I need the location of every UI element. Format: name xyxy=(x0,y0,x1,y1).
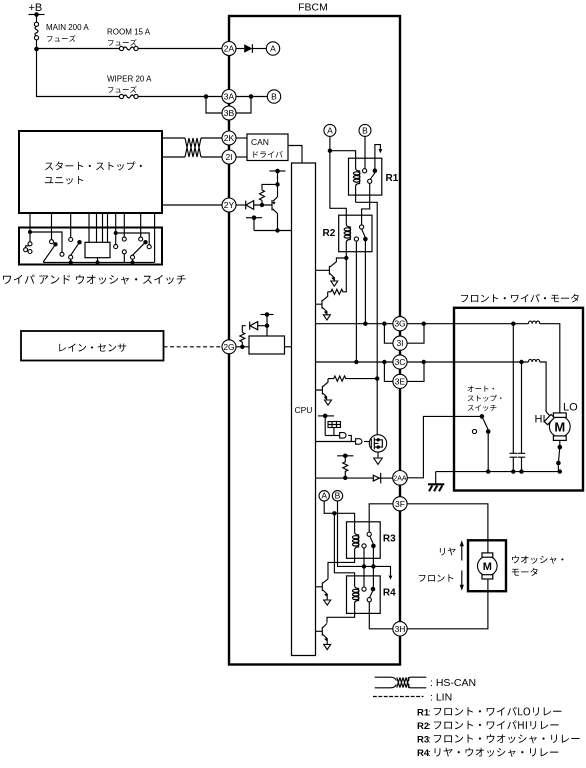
inductor L2 xyxy=(528,359,539,362)
HS-CAN twisted pair xyxy=(185,138,201,157)
relay R1 box xyxy=(349,158,382,195)
relay R2 contact xyxy=(354,225,367,362)
node B out xyxy=(267,90,280,103)
svg-text:ROOM 15 A: ROOM 15 A xyxy=(107,28,151,37)
wire rain sensor to 2G (LIN dashed) xyxy=(164,346,223,348)
wire CAN driver to CPU xyxy=(288,146,302,164)
svg-text:R3: R3 xyxy=(383,534,396,545)
wire diode to 2AA xyxy=(379,477,392,479)
wire diode to node xyxy=(254,204,272,206)
svg-text:A: A xyxy=(327,125,333,135)
wire A down xyxy=(330,136,346,215)
junction dot cap2 xyxy=(519,360,523,364)
switch SW3 contacts xyxy=(114,231,152,249)
junction dot 2G diode xyxy=(265,324,269,328)
wire coil node to Q2 xyxy=(330,258,346,267)
wire 3C to motor xyxy=(407,361,528,363)
ground G1 xyxy=(331,281,338,286)
junction dot 2AA xyxy=(343,476,347,480)
auto stop switch xyxy=(472,414,490,472)
junction dot 3I-3G xyxy=(382,322,386,326)
wire fuse to junction xyxy=(36,40,38,49)
svg-text:R4: R4 xyxy=(383,588,396,599)
connector 2K xyxy=(222,131,236,145)
wire block to CPU xyxy=(285,346,292,348)
transistor Q4 xyxy=(316,379,329,400)
chassis ground xyxy=(428,472,444,492)
wire to ROOM fuse xyxy=(37,48,120,50)
junction dot 2Y node xyxy=(260,203,264,207)
svg-text:CAN: CAN xyxy=(251,137,269,147)
svg-text:WIPER 20 A: WIPER 20 A xyxy=(107,75,152,84)
svg-text:3C: 3C xyxy=(395,357,406,367)
wire L2 to HI brush xyxy=(540,362,550,416)
relay R1 coil xyxy=(353,158,360,202)
legend LIN dashed xyxy=(373,696,424,698)
capacitor C2 xyxy=(518,362,526,472)
svg-text:HI: HI xyxy=(535,414,546,426)
fuse MAIN 200A xyxy=(34,22,38,40)
junction dot A xyxy=(328,149,332,153)
relay R1 contact xyxy=(362,168,378,225)
legend R2 text xyxy=(434,720,559,729)
arrow B2 out xyxy=(389,576,393,580)
junction dot B2-R3com xyxy=(371,564,375,568)
svg-text:R1: R1 xyxy=(386,173,399,184)
transistor Q1 (2Y input) xyxy=(272,184,278,230)
motor box ground rail xyxy=(436,471,560,473)
wire WIPER fuse to 3A xyxy=(138,96,222,98)
junction dot 3C-3E right xyxy=(422,360,426,364)
node +B xyxy=(29,2,45,17)
connector 3I xyxy=(393,336,407,350)
svg-text:CPU: CPU xyxy=(295,405,313,415)
wire washer motor to 3H xyxy=(407,591,488,629)
label rear xyxy=(440,548,456,556)
relay R3 contact xyxy=(362,532,376,589)
svg-text:3E: 3E xyxy=(395,376,406,386)
wire +B down to WIPER branch xyxy=(37,49,120,97)
svg-text:2K: 2K xyxy=(224,133,235,143)
label WIPER fuse xyxy=(108,86,137,93)
label front dir xyxy=(419,574,453,582)
rail tap 2G xyxy=(261,312,274,336)
wire B to R1 contact xyxy=(364,136,366,168)
motor M1 return xyxy=(556,440,562,471)
FBCM module box xyxy=(229,2,400,665)
junction dot Q1-CPU xyxy=(275,228,279,232)
rail tap bottom 2Y xyxy=(246,215,262,230)
svg-text:3I: 3I xyxy=(396,338,403,348)
ground G4 xyxy=(374,452,383,464)
wire 2G to block xyxy=(236,346,249,348)
svg-text::: : xyxy=(428,735,431,746)
connector 2I xyxy=(222,150,236,164)
connector 3G xyxy=(393,317,407,331)
svg-text:A: A xyxy=(270,44,276,54)
junction dot 3E-3C xyxy=(382,360,386,364)
svg-text:: LIN: : LIN xyxy=(430,692,452,704)
svg-text:B: B xyxy=(362,125,368,135)
wire CPU to 3C xyxy=(316,361,394,363)
legend HS-CAN symbol xyxy=(375,677,427,688)
label CAN driver xyxy=(253,151,282,158)
junction dot R2nc-3C xyxy=(354,360,358,364)
switch SW1 wiper xyxy=(24,230,64,262)
connector 3A xyxy=(222,90,236,104)
svg-text:: HS-CAN: : HS-CAN xyxy=(430,677,476,689)
node A out xyxy=(266,42,279,55)
svg-text::: : xyxy=(428,721,431,732)
wire B2 down xyxy=(338,501,391,576)
relay R3 box xyxy=(347,522,381,559)
connector 2AA xyxy=(393,471,408,486)
label wiper and washer switch xyxy=(3,275,186,285)
wire 3E hook right xyxy=(407,362,424,381)
motor M1 xyxy=(544,413,570,441)
wire A to R1 coil xyxy=(330,151,356,159)
wire 3B loop left xyxy=(206,97,222,114)
svg-text:3A: 3A xyxy=(224,92,235,102)
svg-text:B: B xyxy=(271,92,277,102)
wire CPU to 3G xyxy=(316,323,394,325)
node B in xyxy=(359,124,371,136)
resistor R-2AA xyxy=(343,456,348,478)
resistor R-Q4 xyxy=(328,376,377,381)
svg-text:2Y: 2Y xyxy=(224,200,235,210)
relay R2 coil xyxy=(344,215,351,258)
wire 2AA to auto-stop switch xyxy=(407,416,482,477)
svg-text:B: B xyxy=(335,491,341,501)
svg-text::: : xyxy=(428,748,431,759)
connector 3F xyxy=(393,497,407,511)
wire HS-CAN low to 2I xyxy=(162,156,222,158)
svg-text:3B: 3B xyxy=(224,108,235,118)
label auto stop switch line2 xyxy=(468,395,502,402)
junction dot emitter xyxy=(275,182,279,186)
svg-text:3G: 3G xyxy=(394,319,405,329)
interface block 2G xyxy=(249,336,285,354)
legend R1 text xyxy=(434,707,562,716)
wire ROOM fuse to 2A xyxy=(138,48,222,50)
relay R3 coil xyxy=(328,532,359,579)
wire 3B loop right xyxy=(236,97,251,114)
wire R1 coil to down-line xyxy=(356,202,378,435)
wire 3I hook right xyxy=(407,324,424,344)
wire 2I to CAN driver xyxy=(236,156,247,158)
transistor Q2 xyxy=(316,266,335,281)
connector 2Y xyxy=(222,198,236,212)
resistor R-2G xyxy=(240,326,246,347)
front wiper motor box xyxy=(454,308,583,491)
svg-text:3H: 3H xyxy=(395,624,406,634)
node A2 xyxy=(319,491,329,501)
connector 3B xyxy=(222,106,236,120)
switch SW2 xyxy=(69,238,82,265)
wire A2 to R3/R4 coils xyxy=(324,501,354,586)
connector 3E xyxy=(393,374,407,388)
label rain sensor xyxy=(59,344,126,352)
relay R4 box xyxy=(347,576,381,614)
capacitor C1 xyxy=(510,324,518,472)
diode D2 xyxy=(246,201,254,210)
wire L1 to LO brush xyxy=(540,324,560,413)
diode D3 xyxy=(250,322,258,330)
junction dot 3A-B xyxy=(249,94,254,99)
resistor R-2Y xyxy=(260,184,278,205)
ground G6 xyxy=(324,644,331,649)
wire CPU to diode xyxy=(316,477,374,479)
legend R3 text xyxy=(434,734,580,743)
svg-text:+B: +B xyxy=(29,2,43,14)
transistor Q3 xyxy=(316,292,328,315)
relay R1 output arrow xyxy=(375,145,382,171)
junction dot R2 coil xyxy=(344,256,348,260)
svg-text:M: M xyxy=(483,561,492,573)
label auto stop switch line1 xyxy=(468,386,494,392)
junction dot 2G xyxy=(240,345,244,349)
rail tap 2AA xyxy=(337,454,353,459)
junction dot drain line xyxy=(375,376,379,380)
junction dot B2-R3nc xyxy=(362,564,366,568)
wire 2Y to diode xyxy=(236,204,246,206)
junction dot R2out-3G xyxy=(363,322,367,326)
wire diode to A xyxy=(252,48,266,50)
buffer gate 2 xyxy=(316,439,372,445)
switch SW4 contacts xyxy=(122,237,126,262)
junction dot main xyxy=(34,47,39,52)
arrow front xyxy=(460,571,464,591)
buffer gate 1 xyxy=(325,433,351,442)
ground G2 xyxy=(323,315,330,320)
diode D1 xyxy=(244,44,252,53)
wire 2K to CAN driver xyxy=(236,137,247,139)
node A in xyxy=(324,124,336,136)
arrow rear xyxy=(460,540,464,560)
washer motor box xyxy=(468,540,506,591)
label washer motor line2 xyxy=(512,568,538,576)
svg-text:2G: 2G xyxy=(223,342,234,352)
wire 3E hook left xyxy=(384,362,393,381)
junction dot wiper-3A xyxy=(204,94,209,99)
junction dot A2 branch xyxy=(332,511,336,515)
relay R4 coil xyxy=(327,586,359,623)
transistor Q6 xyxy=(316,579,329,600)
rail tap watchdog xyxy=(318,414,334,436)
connector 2G xyxy=(222,340,236,354)
wire 3A to B node xyxy=(236,96,267,98)
wire start-stop to 2Y xyxy=(162,204,222,206)
connector 3H xyxy=(393,622,407,636)
svg-text:MAIN 200 A: MAIN 200 A xyxy=(46,23,89,32)
switch SW5 xyxy=(131,237,148,264)
motor M2 xyxy=(478,540,498,591)
node B2 xyxy=(332,491,342,501)
label ROOM fuse xyxy=(108,39,137,46)
svg-text:FBCM: FBCM xyxy=(298,2,328,14)
label washer motor line1 xyxy=(512,556,563,564)
svg-text:M: M xyxy=(554,419,565,434)
junction dot cap1 xyxy=(511,322,515,326)
wire 3G to motor xyxy=(407,323,528,325)
wire 3F to R3 contact xyxy=(369,504,393,532)
CAN driver U1 xyxy=(247,134,288,161)
MOSFET Q5 xyxy=(369,435,386,452)
junction dot 3G-3I right xyxy=(422,322,426,326)
diode D4 xyxy=(373,473,380,484)
ground G3 xyxy=(325,400,332,405)
label start-stop unit line2 xyxy=(45,176,83,184)
wire HS-CAN high to 2K xyxy=(162,137,222,139)
inductor L1 xyxy=(528,321,539,324)
svg-text:2A: 2A xyxy=(224,44,235,54)
wiper and washer switch box xyxy=(19,228,162,265)
start-stop unit box xyxy=(19,131,162,213)
fuse ROOM 15A xyxy=(119,46,138,50)
switch common rail xyxy=(43,261,154,263)
wire diode to rail tap xyxy=(258,325,267,327)
svg-text:LO: LO xyxy=(563,401,578,413)
label auto stop switch line3 xyxy=(468,405,497,412)
wires start-stop to switch xyxy=(30,213,155,262)
svg-text::: : xyxy=(428,707,431,718)
svg-text:A: A xyxy=(321,491,327,501)
svg-text:2AA: 2AA xyxy=(393,475,407,482)
resistor R-Q3 xyxy=(328,258,347,294)
svg-text:3F: 3F xyxy=(395,499,405,509)
rain sensor box xyxy=(21,331,164,361)
svg-text:R2: R2 xyxy=(323,228,336,239)
wire Q1 collector to CPU xyxy=(254,230,292,232)
wire 3I hook left xyxy=(384,324,393,344)
relay R4 contact xyxy=(362,587,393,629)
wire +B to fuse xyxy=(36,15,38,23)
junction dots rail xyxy=(486,469,490,473)
wire 3F to washer motor xyxy=(407,504,488,541)
CPU block xyxy=(292,163,316,656)
wire 2A to diode xyxy=(236,48,244,50)
label start-stop unit line1 xyxy=(45,161,142,170)
label MAIN 200 A fuse xyxy=(47,35,76,42)
label front wiper motor xyxy=(461,294,579,303)
connector 3C xyxy=(393,355,407,369)
legend R4 text xyxy=(435,748,559,757)
connector 2A xyxy=(222,42,236,56)
svg-text:2I: 2I xyxy=(225,152,232,162)
relay R2 box xyxy=(339,215,372,252)
fuse WIPER 20A xyxy=(119,94,138,98)
oscillator block xyxy=(328,422,341,436)
rail tap top 2Y xyxy=(270,169,286,185)
ground G5 xyxy=(324,600,331,605)
transistor Q7 xyxy=(316,623,328,644)
washer potentiometer block xyxy=(85,242,110,264)
